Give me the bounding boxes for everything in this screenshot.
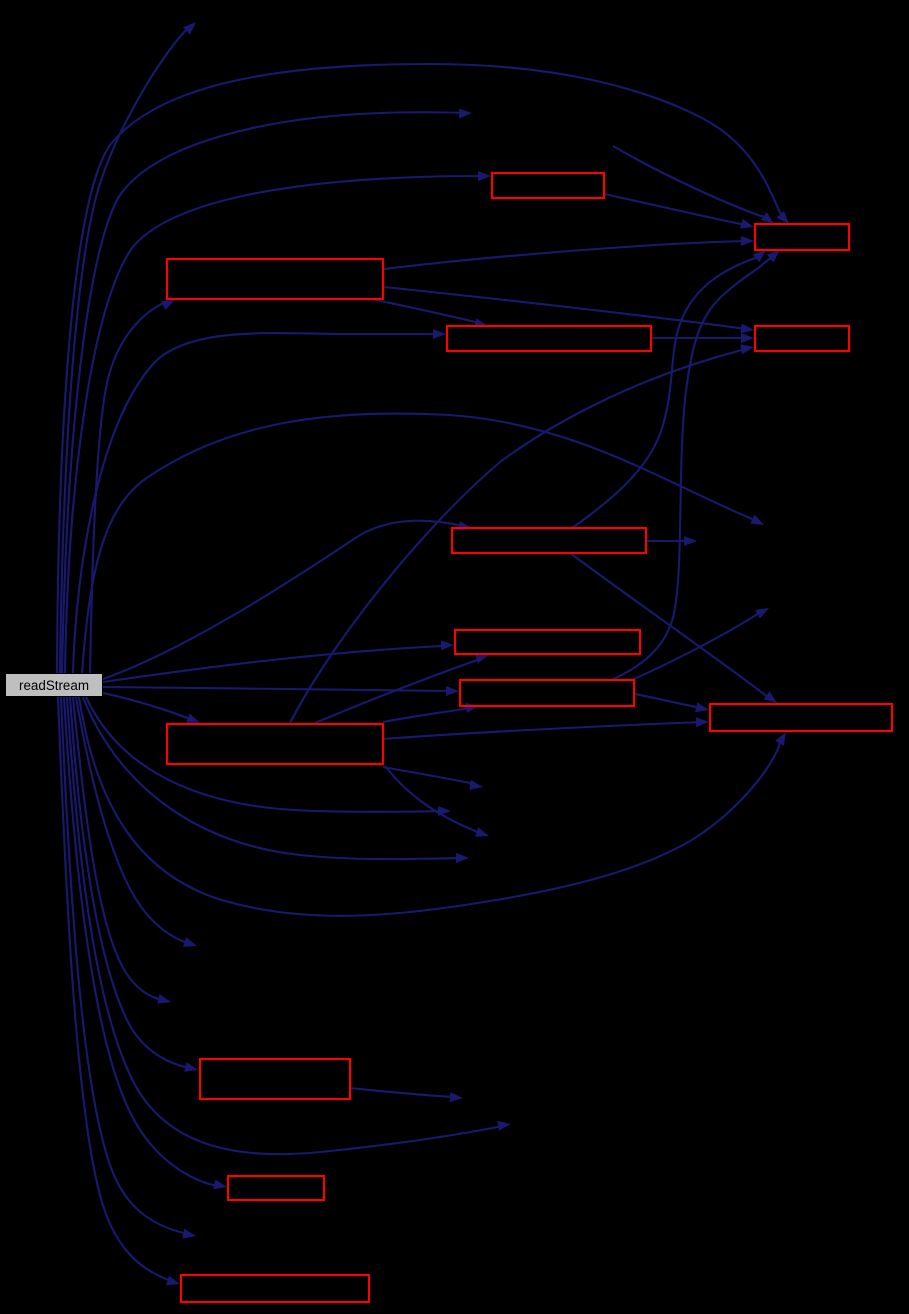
edge readStream to B4 <box>73 329 446 673</box>
truncated node B11 <box>200 1059 350 1099</box>
truncated node B13 <box>181 1275 369 1302</box>
edge node2 to B2 <box>613 146 774 224</box>
edge B8 to B2 bottom <box>611 250 780 680</box>
truncated node B1 <box>492 173 604 198</box>
edge readStream to node5 <box>83 697 469 863</box>
edge B1 to B2 <box>604 194 754 229</box>
truncated node B12 <box>228 1176 324 1200</box>
edge B3 to B5 <box>384 287 754 333</box>
truncated node B10 <box>167 724 383 764</box>
edge readStream to B6 <box>103 521 472 679</box>
edge B11 to node14 <box>350 1088 463 1102</box>
edge readStream to B12 <box>64 697 227 1189</box>
edge readStream to B8 <box>103 686 459 696</box>
edge readStream to B10 <box>103 693 200 723</box>
truncated node B3 <box>167 259 383 299</box>
truncated node B7 <box>455 630 640 654</box>
truncated node B8 <box>460 680 634 706</box>
edge B8 to node11 <box>632 608 769 680</box>
edge readStream to node8 <box>67 697 511 1154</box>
edge B10 to node13 <box>385 766 489 837</box>
edge B6 to B9 top <box>570 553 777 703</box>
edge readStream to B7 <box>103 640 454 682</box>
edge readStream to B3 <box>90 300 175 673</box>
edge B4 to B5 <box>651 333 754 343</box>
root node readStream <box>6 674 103 697</box>
edge B10 to B9 <box>383 717 709 739</box>
edge readStream to node4 <box>86 697 451 816</box>
edge readStream to node3 <box>82 414 764 673</box>
edge B6 to B2 bottom <box>572 250 766 528</box>
edge B10 to node12 <box>383 767 483 790</box>
edge B6 to node10 <box>646 536 697 546</box>
edge B3 to B2 <box>384 236 754 269</box>
edge readStream to node6 <box>76 697 197 947</box>
edge readStream to top node <box>60 22 196 673</box>
truncated node B2 <box>755 224 849 250</box>
edge B10 to B8 <box>383 703 479 722</box>
edge readStream to node7 <box>73 697 171 1004</box>
edge readStream to node2 <box>62 109 472 674</box>
edge B10 to B5 <box>290 344 754 723</box>
truncated node B6 <box>452 528 646 553</box>
truncated node B9 <box>710 704 892 731</box>
edge readStream to B9 bottom <box>79 697 786 916</box>
svg-text:readStream: readStream <box>19 678 89 693</box>
edge B10 to B7 <box>315 654 489 723</box>
edge B8 to B9 <box>635 694 709 712</box>
truncated node B4 <box>447 326 651 351</box>
edge B3 to B4 <box>371 299 488 328</box>
edge readStream to B11 <box>70 697 198 1072</box>
edge readStream to B13 <box>58 697 180 1285</box>
edge readStream to node9 <box>61 697 196 1239</box>
edge readStream to B1 <box>65 171 491 673</box>
edge readStream to B2 top <box>57 64 789 673</box>
truncated node B5 <box>755 326 849 351</box>
